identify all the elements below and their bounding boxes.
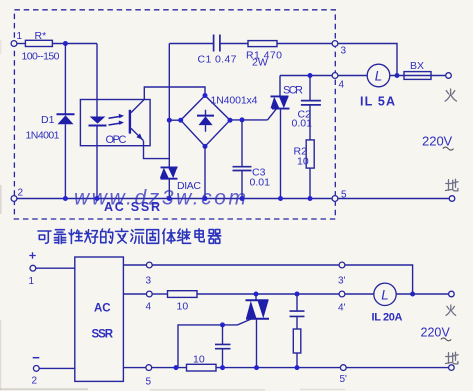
svg-text:1: 1 [17,31,23,42]
capacitor C3 0.01 [233,120,271,199]
snubber resistor [293,329,301,368]
wire triac gate loop [178,319,252,368]
svg-text:2: 2 [18,188,24,199]
terminal 3' [338,262,346,286]
svg-text:4: 4 [339,80,345,91]
wire lamp to live terminal [396,293,448,295]
svg-text:3': 3' [338,276,346,287]
junction dot lamp output [410,292,415,297]
terminal 2 [11,188,23,202]
capacitor C1 0.47 [198,35,237,66]
svg-text:0.01: 0.01 [292,118,313,130]
resistor 10 in rail [187,354,217,372]
wire emitter to DIAC branch [144,141,170,159]
lamp IL 5A [360,64,395,108]
terminal 3 [146,262,153,286]
svg-text:4': 4' [338,303,346,314]
svg-text:D1: D1 [41,114,55,126]
terminal 5 [332,190,347,202]
svg-text:10: 10 [193,354,205,366]
junction dot C3 tap [240,117,245,122]
wire resistor to 4' [197,293,339,295]
caption: reliable AC solid state relay [38,229,221,244]
wire box to terminal 5 [123,367,145,369]
svg-text:SSR: SSR [92,329,114,341]
junction dot lamp output [395,73,400,78]
wire C1 to R1 [220,43,248,45]
terminal 1 plus [29,252,36,287]
svg-text:IL 20A: IL 20A [372,312,403,324]
fuse BX [404,60,431,79]
OPC phototransistor [129,99,145,140]
wire terminal 3 to 3' [152,264,339,266]
wire minus to box [39,367,75,369]
wire DIAC to bottom rail [168,179,170,199]
junction dots bridge vertices [178,93,232,149]
wire R2 to bottom rail [309,168,311,198]
optocoupler OPC box [80,100,150,146]
wire to bridge left vertex [169,119,180,121]
svg-text:IL 5A: IL 5A [360,95,395,109]
triac [246,294,270,319]
wire LED cathode to bottom rail [96,126,98,199]
gate capacitor [215,325,231,368]
label 220V lower [421,326,452,341]
wire terminal1 to R* [17,43,26,45]
svg-text:L: L [381,287,389,302]
wire terminal 3 to lamp junction [338,44,397,76]
wire triac bottom to rail [256,319,258,368]
label earth wire lower [446,352,459,364]
wire R* to LED branch corner [52,43,97,45]
svg-text:3: 3 [146,276,152,287]
lamp IL 20A [372,283,403,323]
snubber capacitor [290,294,305,329]
svg-text:100--150: 100--150 [22,51,60,63]
terminal 5' [340,365,348,385]
wire D1 to bottom rail [64,124,66,198]
wire down to D1 [64,44,66,115]
wire down into optocoupler LED [96,44,98,117]
terminal mains neutral [449,196,455,202]
terminal 4 [332,73,344,91]
svg-text:220: 220 [421,326,442,340]
svg-text:5': 5' [340,374,348,385]
bottom rail of SSR internal circuit [17,198,332,200]
wire collector to bridge top [144,87,205,99]
svg-text:10: 10 [177,301,189,313]
resistor R* [22,30,60,63]
terminal mains live lower [449,291,455,297]
DIAC [160,167,202,192]
resistor R2 10 [294,140,315,168]
terminal 5 [146,365,152,388]
junction dot node A [63,41,68,46]
terminal 4' [338,291,346,313]
svg-text:L: L [375,69,383,84]
svg-text:BX: BX [410,60,424,72]
wire 3' to lamp junction [345,265,413,294]
svg-text:1: 1 [29,276,35,287]
junction dot C2 tap [308,73,313,78]
label fire wire lower [446,305,456,315]
svg-text:5: 5 [146,377,152,388]
label 220V [422,134,454,151]
svg-text:R*: R* [35,30,47,42]
scan artifacts [0,40,345,390]
svg-text:OPC: OPC [106,134,127,146]
wire SCR gate to bridge right vertex [230,109,277,120]
junction dot triac top [254,292,259,297]
svg-text:V: V [444,134,453,149]
terminal 2 minus [32,358,40,387]
svg-text:AC: AC [94,303,111,315]
label fire wire [445,89,456,101]
svg-text:2W: 2W [252,57,268,69]
light arrows [109,114,125,125]
svg-text:1N4001: 1N4001 [26,130,60,142]
wire R1 to terminal 3 [277,43,332,45]
resistor R1 470 2W [246,41,282,69]
wire 4' to lamp [345,293,374,295]
OPC LED [89,117,107,126]
wire terminal 5 to rail resistor [152,367,187,369]
svg-text:SCR: SCR [283,85,303,97]
AC SSR internal circuit dashed enclosure [14,10,335,219]
svg-text:3: 3 [341,46,347,57]
junction dot node B [167,118,172,123]
wire box to terminal 3 [123,264,146,266]
wire SCR cathode to bottom rail [280,109,282,199]
svg-text:0.01: 0.01 [250,177,271,189]
wire C1 rail corner down through DIAC branch [168,44,170,168]
SCR [271,76,304,109]
wire 5' to neutral terminal [346,367,448,369]
wire rail resistor to 5' [216,367,340,369]
terminal 3 [332,41,346,57]
junction dot gate capacitor tap [220,322,225,327]
terminal mains live [446,73,452,79]
bridge rectifier 1N4001x4 [181,95,258,147]
junction dots bottom rail [63,196,313,201]
wire plus to box [36,267,75,269]
terminal 1 [11,31,22,46]
capacitor C2 0.01 [292,76,321,140]
wire terminal 4 to resistor [152,293,167,295]
AC SSR box [75,257,124,381]
label earth wire [446,179,459,191]
junction dot gate return [174,365,179,370]
svg-text:V: V [442,326,451,340]
wire terminal 4 to lamp [338,75,367,77]
svg-text:10: 10 [297,156,309,168]
wire rail to C1 [169,43,213,45]
svg-text:220: 220 [422,134,444,149]
terminal mains neutral lower [449,365,455,371]
svg-text:C1 0.47: C1 0.47 [198,53,237,65]
svg-text:1N4001x4: 1N4001x4 [211,95,258,107]
svg-text:4: 4 [146,302,152,313]
wire terminal 5 to neutral terminal [338,198,449,200]
junction dots lower rail [220,365,300,370]
terminal 4 [146,291,153,312]
wire SCR anode rail to terminal 4 [280,75,332,77]
wire bridge bottom to rail [204,146,206,198]
svg-text:2: 2 [32,376,38,387]
diode D1 1N4001 [26,114,75,142]
resistor 10 gate series [168,291,198,313]
wire lamp to live terminal [390,75,446,77]
junction dot snubber top [295,292,300,297]
wire box to terminal 4 [123,293,146,295]
